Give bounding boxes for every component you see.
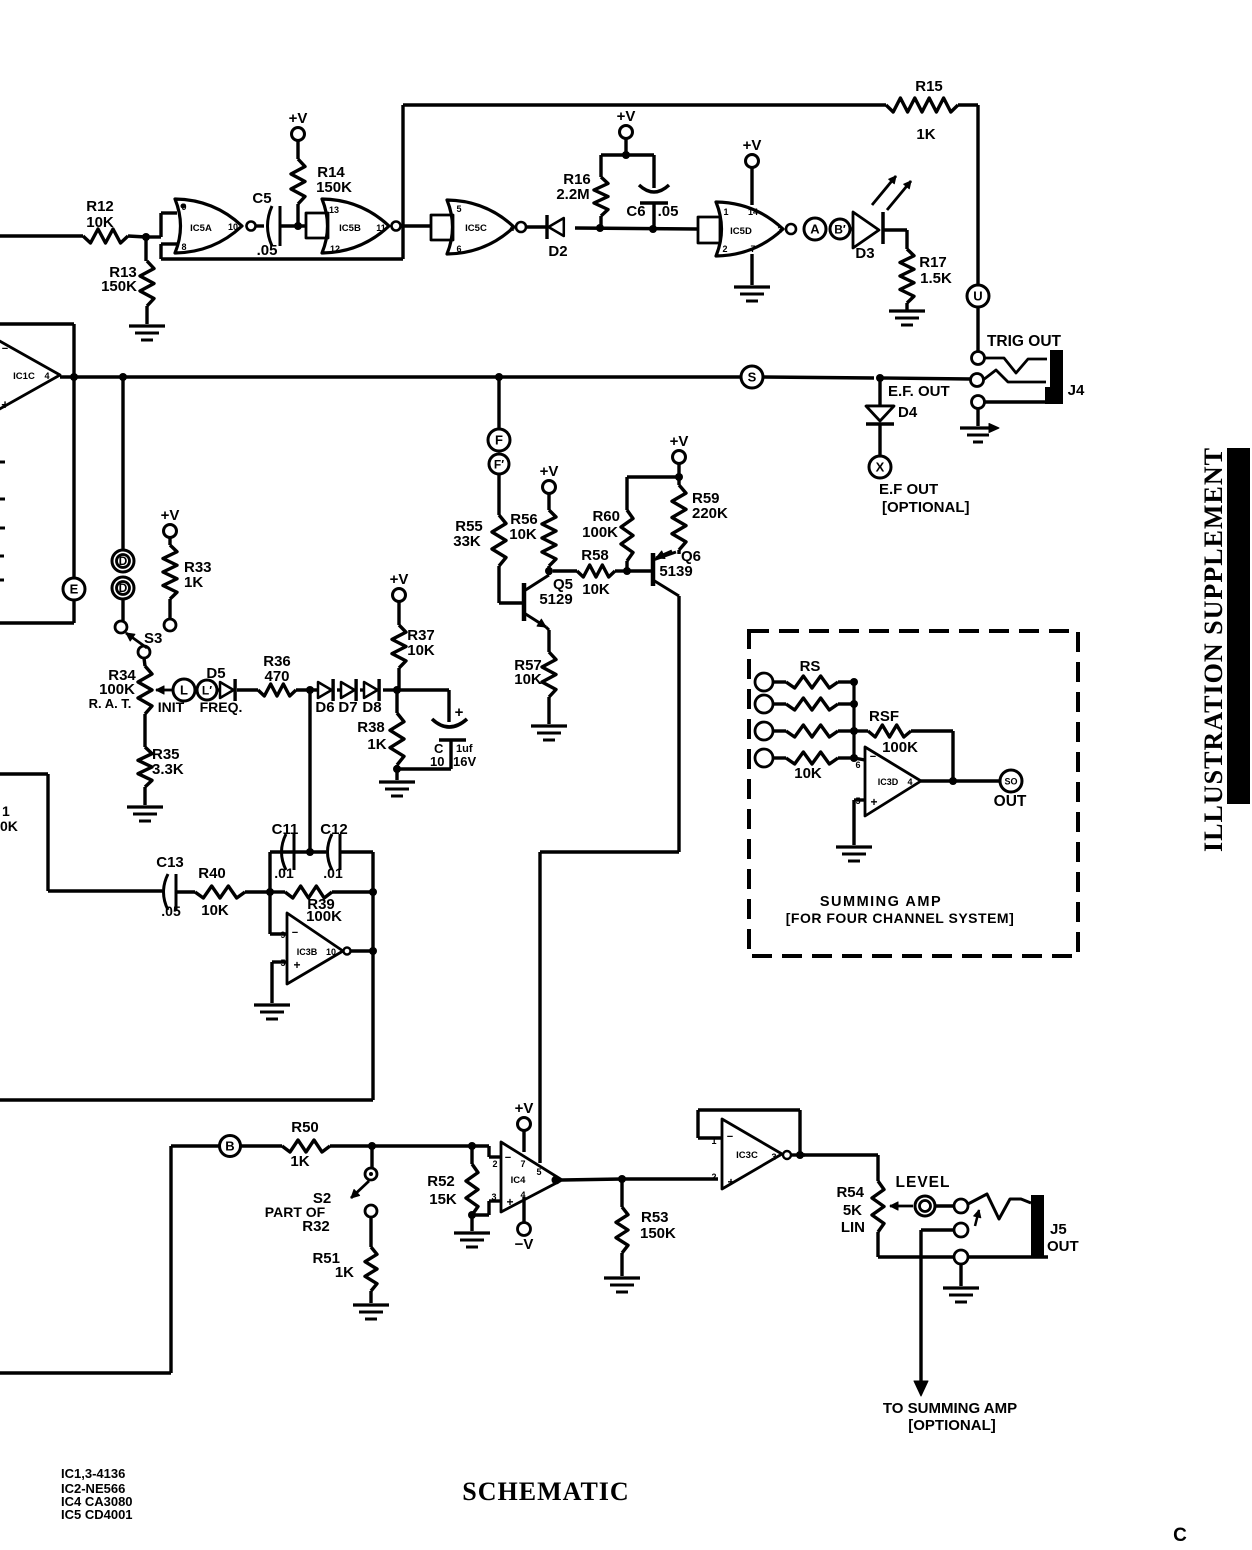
wire R36 to D6 — [296, 686, 318, 694]
ground R52 — [454, 1215, 490, 1247]
svg-text:−: − — [292, 927, 298, 939]
svg-text:10: 10 — [228, 222, 238, 232]
wire IC3D output — [921, 779, 1000, 782]
wire to node D column — [121, 377, 124, 550]
resistor R38 — [357, 690, 404, 773]
svg-text:L: L — [180, 683, 188, 698]
svg-text:1K: 1K — [184, 574, 203, 591]
ground R35 — [127, 807, 163, 821]
svg-text:1K: 1K — [367, 736, 386, 753]
resistor R13 — [101, 237, 154, 324]
ground R13 — [129, 326, 165, 340]
label E.F OUT (OPTIONAL) — [879, 481, 970, 516]
resistor R35 — [138, 746, 184, 805]
svg-text:10K: 10K — [794, 765, 822, 782]
svg-text:+V: +V — [617, 108, 636, 125]
wire C5 to IC5B inputs — [280, 222, 306, 230]
ground R17 — [889, 311, 925, 325]
svg-text:R17: R17 — [919, 254, 947, 271]
svg-text:1.5K: 1.5K — [920, 270, 952, 287]
IC5C input tie box — [431, 215, 453, 240]
svg-text:10: 10 — [326, 947, 336, 957]
wire main E.F. rail — [60, 373, 971, 382]
svg-text:E.F OUT: E.F OUT — [879, 481, 938, 498]
svg-text:[OPTIONAL]: [OPTIONAL] — [908, 1417, 996, 1434]
resistor R33 — [161, 507, 212, 618]
wire S3 pole to R34 — [144, 658, 145, 666]
wire input to R12 — [0, 234, 83, 237]
R34 wiper — [156, 686, 172, 694]
sidebar black bar — [1227, 448, 1250, 804]
svg-text:.05: .05 — [658, 203, 679, 220]
wire IC3B output — [350, 947, 377, 955]
svg-text:IC5A: IC5A — [190, 223, 212, 234]
svg-text:10K: 10K — [509, 526, 537, 543]
wire R50 junction to IC4 — [372, 1142, 501, 1157]
label SCHEMATIC — [462, 1477, 629, 1506]
resistor R57 — [514, 630, 556, 724]
svg-text:+V: +V — [743, 137, 762, 154]
NOR gate IC5D — [716, 202, 796, 256]
svg-text:D3: D3 — [855, 245, 874, 262]
svg-text:+: + — [506, 1195, 513, 1209]
wire node E to left edge — [0, 600, 74, 623]
svg-text:150K: 150K — [640, 1225, 676, 1242]
wire IC4 output — [562, 1175, 718, 1183]
wire IC3B inverting input — [270, 892, 287, 934]
svg-text:D2: D2 — [548, 243, 567, 260]
node L — [173, 679, 195, 701]
ground R53 — [604, 1278, 640, 1292]
switch S2 — [265, 1146, 377, 1235]
resistor R54 level pot — [836, 1181, 884, 1257]
wire top rail — [403, 103, 886, 106]
svg-text:R50: R50 — [291, 1119, 319, 1136]
svg-text:5139: 5139 — [659, 563, 692, 580]
capacitor C7 electrolytic — [397, 690, 476, 769]
svg-text:2: 2 — [722, 244, 727, 254]
svg-text:R53: R53 — [641, 1209, 669, 1226]
svg-text:+V: +V — [540, 463, 559, 480]
wire junction to C11 C12 — [306, 690, 314, 856]
wire feedback rail to left edge — [0, 852, 373, 1100]
resistor R59 — [670, 433, 728, 554]
jack J5 body — [1031, 1195, 1044, 1258]
resistor R36 — [258, 653, 296, 696]
ground R51 — [353, 1305, 389, 1319]
svg-text:14: 14 — [748, 207, 758, 217]
wire IC1C output to E column — [72, 377, 75, 578]
svg-text:L′: L′ — [202, 684, 212, 698]
svg-text:C6: C6 — [626, 203, 645, 220]
svg-text:D: D — [119, 554, 128, 568]
svg-text:15K: 15K — [429, 1191, 457, 1208]
diode D7 — [337, 679, 358, 716]
svg-text:C11: C11 — [272, 821, 299, 838]
label TO SUMMING AMP — [883, 1400, 1017, 1434]
J4 ring spring contact — [983, 370, 1046, 382]
op-amp IC3D — [854, 747, 921, 816]
svg-text:4: 4 — [509, 223, 514, 233]
J4 sleeve wire — [984, 400, 1048, 403]
label E.F. OUT — [888, 383, 950, 400]
svg-text:+V: +V — [161, 507, 180, 524]
svg-text:1K: 1K — [335, 1264, 354, 1281]
svg-text:.01: .01 — [323, 865, 343, 881]
svg-text:3: 3 — [491, 1192, 496, 1202]
S2 lower contact — [365, 1205, 377, 1217]
J5 tip spring contact — [968, 1194, 1031, 1226]
svg-text:IC3B: IC3B — [297, 947, 318, 957]
svg-text:+: + — [1, 397, 9, 412]
svg-text:1K: 1K — [290, 1153, 309, 1170]
wire R35 junction — [143, 714, 146, 747]
label INIT FREQ. — [158, 699, 243, 715]
svg-text:IC5C: IC5C — [465, 223, 487, 234]
svg-text:A: A — [810, 222, 820, 237]
+V supply IC4 — [515, 1100, 534, 1152]
svg-text:OUT: OUT — [994, 793, 1027, 810]
op-amp IC3B — [280, 913, 350, 984]
svg-text:10K: 10K — [201, 902, 229, 919]
svg-text:1: 1 — [2, 803, 10, 819]
svg-text:R60: R60 — [592, 508, 620, 525]
arrow to summing amp — [914, 1381, 928, 1396]
svg-text:+: + — [293, 958, 300, 972]
svg-text:0K: 0K — [0, 818, 18, 834]
svg-text:FREQ.: FREQ. — [200, 699, 243, 715]
wire Q6 collector to IC4 pin 5 — [540, 596, 679, 1163]
wire IC3C output — [791, 1151, 878, 1181]
R54 panel node — [915, 1196, 935, 1216]
svg-text:.01: .01 — [274, 865, 294, 881]
op-amp IC3C — [711, 1119, 791, 1189]
svg-text:7: 7 — [520, 1159, 525, 1169]
wire wiper to J5 tip — [935, 1204, 953, 1207]
svg-text:RS: RS — [800, 658, 821, 675]
wire IC5C output to D2 — [526, 225, 546, 228]
svg-text:.05: .05 — [257, 242, 278, 259]
wire R52 to IC4 non-inverting input — [472, 1201, 501, 1215]
svg-text:IC1C: IC1C — [13, 371, 35, 382]
svg-text:C13: C13 — [156, 854, 184, 871]
resistor R55 — [453, 474, 506, 603]
wire IC3C feedback — [698, 1110, 800, 1155]
svg-text:+V: +V — [670, 433, 689, 450]
IC parts list — [61, 1466, 133, 1522]
svg-text:+: + — [727, 1175, 734, 1189]
svg-text:10K: 10K — [407, 642, 435, 659]
resistor R17 — [900, 249, 952, 311]
resistor R53 — [616, 1179, 676, 1276]
svg-text:.05: .05 — [161, 903, 181, 919]
NOR gate IC5C — [447, 200, 526, 254]
svg-text:RSF: RSF — [869, 708, 899, 725]
wire C11 left to R39 junction — [270, 852, 292, 892]
diode D8 — [360, 679, 382, 716]
svg-text:E: E — [70, 582, 79, 597]
svg-text:10K: 10K — [582, 581, 610, 598]
svg-text:R. A. T.: R. A. T. — [89, 696, 132, 711]
J5 sleeve lug — [954, 1250, 968, 1264]
ground R57 — [531, 726, 567, 740]
svg-text:6: 6 — [456, 244, 461, 254]
ground J5 — [943, 1264, 979, 1302]
svg-text:ILLUSTRATION SUPPLEMENT: ILLUSTRATION SUPPLEMENT — [1199, 448, 1228, 852]
label J5 OUT — [1047, 1221, 1079, 1255]
svg-text:5129: 5129 — [539, 591, 572, 608]
svg-text:2: 2 — [711, 1172, 716, 1182]
svg-text:S3: S3 — [144, 630, 162, 647]
svg-text:+: + — [455, 704, 464, 721]
wire IC3B non-inverting input to ground — [272, 962, 287, 1003]
wire D3 to R17 — [883, 230, 907, 249]
ground IC3B — [254, 1005, 290, 1019]
svg-text:+V: +V — [390, 571, 409, 588]
svg-text:D7: D7 — [338, 699, 357, 716]
wire D5 to R36 — [237, 688, 258, 691]
resistor R51 — [312, 1217, 377, 1303]
label LEVEL — [896, 1174, 951, 1191]
LED D3 — [850, 176, 911, 262]
capacitor C5 — [252, 190, 280, 259]
+V supply R16/C6 — [617, 108, 636, 155]
J5 ring lug — [954, 1223, 968, 1237]
label TRIG OUT — [987, 333, 1062, 350]
node D — [112, 550, 134, 572]
sidebar ILLUSTRATION SUPPLEMENT — [1199, 448, 1228, 852]
svg-text:D4: D4 — [898, 404, 918, 421]
svg-text:−V: −V — [515, 1236, 534, 1253]
svg-text:IC1,3-4136: IC1,3-4136 — [61, 1466, 125, 1481]
resistor R14 — [289, 110, 352, 226]
svg-text:IC3C: IC3C — [736, 1150, 758, 1161]
R33 bottom contact — [164, 619, 176, 631]
svg-text:J5: J5 — [1050, 1221, 1067, 1238]
node S — [741, 366, 763, 388]
svg-text:10K: 10K — [514, 671, 542, 688]
J5 tip lug — [954, 1199, 968, 1213]
svg-text:X: X — [876, 460, 885, 475]
node B — [220, 1136, 241, 1157]
svg-text:[OPTIONAL]: [OPTIONAL] — [882, 499, 970, 516]
svg-text:220K: 220K — [692, 505, 728, 522]
svg-text:SUMMING AMP: SUMMING AMP — [820, 894, 942, 910]
wire R54 bottom rail — [878, 1255, 954, 1258]
wire D8 to junction — [383, 686, 401, 694]
wire node U to jack — [976, 307, 979, 352]
svg-text:−: − — [505, 1152, 511, 1164]
wire J5 ring to summing amp — [921, 1230, 954, 1384]
svg-text:J4: J4 — [1068, 382, 1085, 399]
ground R38 — [379, 769, 415, 796]
left edge wire stubs — [0, 462, 5, 580]
wire D' to switch S3 — [121, 599, 124, 621]
svg-text:R32: R32 — [302, 1218, 330, 1235]
transistor Q6 — [627, 548, 701, 596]
svg-text:IC3D: IC3D — [878, 777, 899, 787]
resistor R39 — [266, 886, 377, 925]
svg-text:+: + — [870, 795, 877, 809]
node E — [63, 578, 85, 600]
svg-text:1K: 1K — [916, 126, 935, 143]
svg-text:D: D — [119, 581, 128, 595]
svg-text:100K: 100K — [882, 739, 918, 756]
svg-text:R52: R52 — [427, 1173, 455, 1190]
ground IC5D pin 7 — [734, 254, 770, 301]
op-amp IC4 — [491, 1142, 562, 1212]
summing bus — [838, 678, 858, 762]
svg-text:−: − — [2, 343, 8, 355]
op-amp IC1C — [0, 330, 60, 420]
svg-text:U: U — [973, 289, 982, 304]
svg-text:B: B — [225, 1139, 234, 1154]
svg-text:3.3K: 3.3K — [152, 761, 184, 778]
svg-text:5: 5 — [456, 204, 461, 214]
svg-text:11: 11 — [376, 223, 386, 233]
+V supply IC5D pin 14 — [743, 137, 762, 205]
J4 sleeve lug — [972, 396, 985, 409]
svg-text:D6: D6 — [315, 699, 334, 716]
IC5B input tie box — [306, 213, 328, 238]
svg-text:150K: 150K — [101, 278, 137, 295]
svg-text:TO SUMMING AMP: TO SUMMING AMP — [883, 1400, 1017, 1417]
diode D4 — [866, 378, 918, 456]
J4 tip spring contact — [984, 358, 1047, 373]
svg-text:R12: R12 — [86, 198, 114, 215]
svg-text:OUT: OUT — [1047, 1238, 1079, 1255]
label SUMMING AMP — [786, 894, 1014, 926]
feedback wire to IC5A pin 8 — [161, 244, 403, 259]
wire from left edge to C13 — [0, 774, 48, 891]
capacitor C6 — [626, 155, 678, 229]
wire IC5A output to C5 — [256, 224, 264, 227]
summing amp dashed border — [749, 631, 1078, 956]
ground J4 sleeve — [960, 408, 999, 442]
svg-text:D5: D5 — [206, 665, 225, 682]
svg-text:10K: 10K — [86, 214, 114, 231]
svg-text:F′: F′ — [494, 458, 504, 472]
svg-text:4: 4 — [907, 777, 912, 787]
svg-text:13: 13 — [329, 205, 339, 215]
node B' — [830, 219, 850, 239]
svg-text:5: 5 — [536, 1167, 541, 1177]
resistor R40 — [176, 865, 270, 919]
node F' — [489, 454, 509, 474]
-V supply IC4 — [515, 1197, 534, 1253]
J4 ring lug — [971, 374, 984, 387]
R54 wiper — [890, 1202, 913, 1210]
node L' — [197, 680, 217, 700]
capacitor C12 — [320, 821, 373, 881]
svg-text:2: 2 — [492, 1159, 497, 1169]
resistor RS 3 — [773, 725, 838, 737]
resistor R58 — [553, 547, 627, 598]
svg-text:S: S — [748, 370, 757, 385]
svg-text:IC4: IC4 — [511, 1175, 527, 1186]
svg-text:−: − — [727, 1131, 733, 1143]
svg-text:C12: C12 — [320, 821, 348, 838]
NOR gate IC5B — [322, 199, 401, 254]
wire IC3D non-inverting to ground — [854, 800, 865, 845]
svg-text:2.2M: 2.2M — [556, 186, 589, 203]
label OUT summing — [994, 793, 1027, 810]
node X — [869, 456, 891, 478]
page letter C — [1173, 1525, 1187, 1546]
svg-text:TRIG OUT: TRIG OUT — [987, 333, 1062, 350]
svg-text:16V: 16V — [453, 754, 476, 769]
svg-text:470: 470 — [264, 668, 289, 685]
J4 tip lug — [972, 352, 985, 365]
svg-text:4: 4 — [44, 371, 49, 381]
wire IC1C feedback over top — [0, 324, 74, 377]
resistor R50 — [240, 1119, 376, 1170]
svg-text:+V: +V — [289, 110, 308, 127]
svg-text:B′: B′ — [834, 223, 846, 237]
wire F column — [497, 377, 500, 429]
svg-text:D8: D8 — [362, 699, 381, 716]
svg-text:100K: 100K — [306, 908, 342, 925]
NOR gate IC5A — [175, 199, 256, 253]
wire Q5 collector junction — [545, 567, 553, 575]
svg-text:7: 7 — [750, 244, 755, 254]
svg-text:R40: R40 — [198, 865, 226, 882]
transistor Q5 — [499, 575, 573, 630]
resistor R15 — [886, 78, 958, 143]
svg-text:6: 6 — [855, 760, 860, 770]
wire R12 to IC5A inputs — [128, 213, 177, 241]
resistor R12 — [83, 198, 128, 243]
ground IC3D — [836, 847, 872, 861]
svg-text:[FOR FOUR CHANNEL SYSTEM]: [FOR FOUR CHANNEL SYSTEM] — [786, 910, 1014, 926]
svg-text:C5: C5 — [252, 190, 271, 207]
node SO — [1000, 770, 1022, 792]
svg-text:100K: 100K — [582, 524, 618, 541]
diode D2 — [547, 215, 568, 260]
resistor R52 — [427, 1146, 478, 1219]
svg-text:R54: R54 — [836, 1184, 864, 1201]
capacitor C13 — [48, 854, 184, 919]
svg-text:3: 3 — [777, 225, 782, 235]
resistor RS 4 — [773, 752, 838, 782]
svg-text:F: F — [495, 433, 503, 448]
svg-text:150K: 150K — [316, 179, 352, 196]
diode D5 — [206, 665, 235, 701]
svg-text:10: 10 — [430, 754, 444, 769]
svg-text:INIT: INIT — [158, 699, 185, 715]
svg-text:SCHEMATIC: SCHEMATIC — [462, 1477, 629, 1506]
switch S3 — [115, 621, 162, 658]
resistor R16 — [556, 151, 630, 228]
svg-text:E.F. OUT: E.F. OUT — [888, 383, 950, 400]
svg-text:+V: +V — [515, 1100, 534, 1117]
svg-text:IC5 CD4001: IC5 CD4001 — [61, 1507, 133, 1522]
svg-text:R15: R15 — [915, 78, 943, 95]
svg-text:IC5D: IC5D — [730, 226, 752, 237]
resistor R60 — [582, 477, 679, 575]
wire J5 sleeve to jack — [968, 1255, 1048, 1258]
potentiometer R34 — [89, 666, 152, 714]
wire IC5B output node — [401, 224, 431, 227]
capacitor C11 — [272, 821, 326, 881]
jack J4 body — [1045, 350, 1063, 404]
svg-text:R58: R58 — [581, 547, 609, 564]
svg-text:−: − — [870, 751, 876, 763]
resistor RS 1 — [773, 658, 838, 688]
svg-text:8: 8 — [181, 242, 186, 252]
label J4 — [1068, 382, 1085, 399]
resistor R56 — [509, 463, 558, 571]
